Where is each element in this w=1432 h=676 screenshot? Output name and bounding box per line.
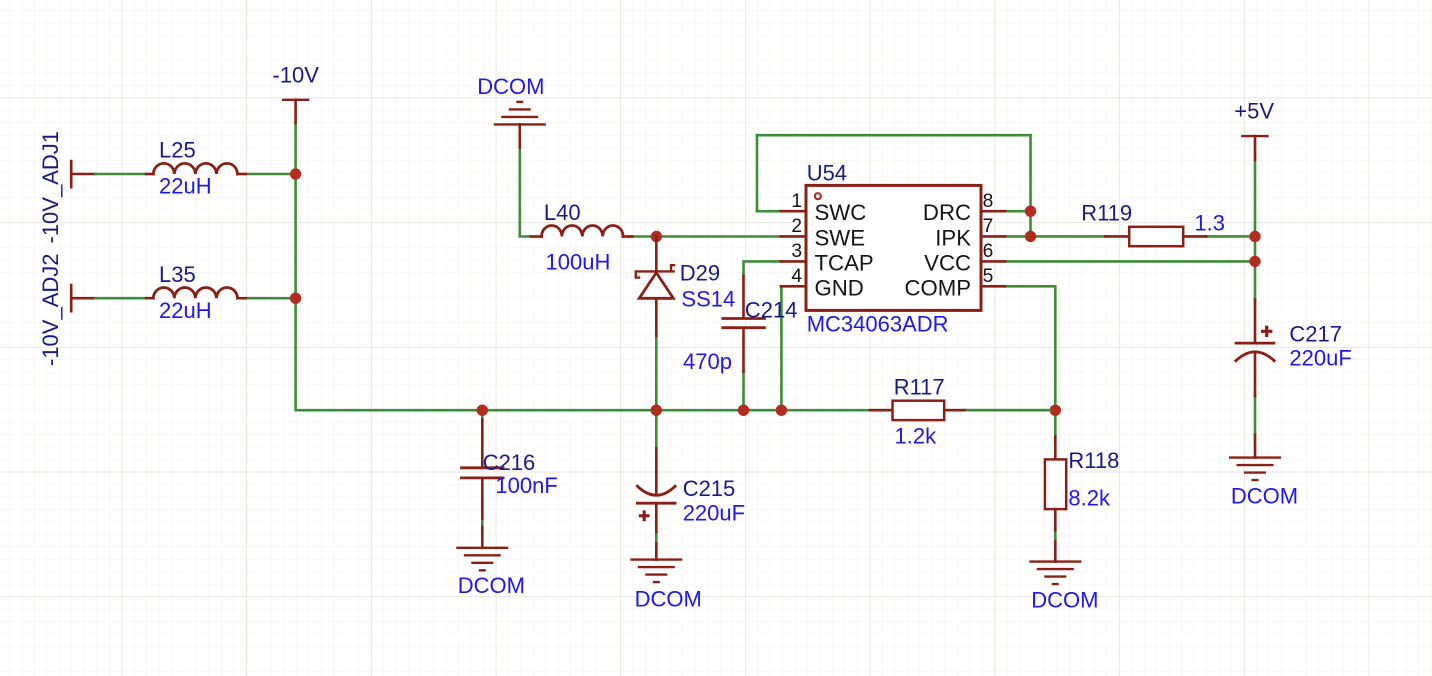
inductor L25 — [153, 163, 237, 174]
wire — [744, 261, 781, 275]
svg-text:22uH: 22uH — [159, 298, 212, 323]
wire — [246, 297, 296, 300]
wire — [757, 134, 1031, 137]
wire — [627, 235, 781, 238]
svg-text:SWE: SWE — [815, 225, 866, 250]
junction node bus C216 — [477, 405, 488, 416]
wire — [655, 532, 658, 544]
svg-text:VCC: VCC — [924, 250, 971, 275]
U54 pin 7 IPK — [981, 235, 1005, 238]
junction node bus C214 — [738, 405, 749, 416]
svg-text:DCOM: DCOM — [635, 587, 702, 612]
svg-text:+5V: +5V — [1234, 98, 1274, 123]
svg-text:5: 5 — [983, 266, 994, 287]
svg-text:7: 7 — [983, 216, 994, 237]
svg-text:DRC: DRC — [923, 200, 971, 225]
wire — [967, 409, 1050, 412]
junction node L40 / D29 / SWE — [651, 231, 662, 242]
svg-text:1: 1 — [791, 191, 802, 212]
junction node bus GND pin — [776, 405, 787, 416]
IC U54 body — [806, 185, 981, 310]
resistor R119 body — [1129, 227, 1183, 246]
wire — [1005, 286, 1055, 404]
svg-text:D29: D29 — [680, 261, 720, 286]
svg-text:22uH: 22uH — [159, 174, 212, 199]
svg-text:IPK: IPK — [935, 225, 971, 250]
resistor R118 body — [1054, 437, 1057, 460]
ground DCOM C216 — [456, 548, 508, 571]
power flag -10V — [282, 99, 310, 101]
wire — [756, 135, 759, 211]
svg-text:220uF: 220uF — [1289, 346, 1351, 371]
svg-text:U54: U54 — [807, 161, 847, 186]
svg-text:MC34063ADR: MC34063ADR — [807, 312, 949, 337]
svg-text:-10V: -10V — [273, 62, 320, 87]
svg-text:4: 4 — [791, 266, 802, 287]
svg-text:DCOM: DCOM — [1031, 588, 1098, 613]
junction node bus C215/D29 — [651, 405, 662, 416]
svg-text:470p: 470p — [683, 349, 732, 374]
wire — [1005, 260, 1255, 263]
inductor L35 — [153, 288, 237, 299]
ground DCOM R118 — [1029, 562, 1081, 585]
ground DCOM C215 — [630, 560, 682, 583]
wire — [1254, 396, 1257, 435]
svg-text:L25: L25 — [159, 137, 196, 162]
wire — [1054, 531, 1057, 542]
svg-text:L35: L35 — [159, 262, 196, 287]
svg-text:DCOM: DCOM — [1231, 484, 1298, 509]
capacitor C217 — [1254, 300, 1257, 344]
svg-text:R117: R117 — [894, 375, 945, 400]
svg-text:1.2k: 1.2k — [895, 424, 938, 449]
svg-text:DCOM: DCOM — [458, 573, 525, 598]
wire — [520, 148, 531, 237]
wire — [1005, 210, 1024, 213]
svg-text:SWC: SWC — [815, 200, 867, 225]
svg-text:C215: C215 — [683, 476, 736, 501]
inductor L40 — [542, 225, 624, 236]
svg-text:C217: C217 — [1289, 322, 1342, 347]
wire — [1054, 410, 1057, 436]
wire — [246, 173, 296, 176]
junction node DRC — [1025, 206, 1036, 217]
svg-text:100nF: 100nF — [495, 473, 557, 498]
capacitor C216 — [481, 420, 484, 468]
svg-text:-10V_ADJ2: -10V_ADJ2 — [38, 253, 63, 366]
svg-text:COMP: COMP — [904, 275, 971, 300]
svg-text:C216: C216 — [483, 450, 536, 475]
wire — [757, 210, 781, 213]
U54 pin 8 DRC — [981, 210, 1005, 213]
wire — [95, 297, 146, 300]
wire — [481, 410, 484, 419]
U54 pin 3 TCAP — [781, 260, 806, 263]
wire — [1206, 235, 1255, 238]
wire — [1254, 160, 1257, 300]
svg-text:TCAP: TCAP — [815, 250, 874, 275]
U54 pin 6 VCC — [981, 260, 1005, 263]
wire — [296, 123, 1056, 410]
resistor R117 body — [893, 401, 945, 420]
wire — [481, 519, 484, 528]
pin terminal -10V_ADJ1 — [71, 161, 95, 187]
svg-text:3: 3 — [791, 241, 802, 262]
U54 pin 1 SWC — [781, 210, 806, 213]
junction node -10V / L25 — [290, 168, 301, 179]
svg-text:100uH: 100uH — [546, 250, 611, 275]
svg-text:C214: C214 — [745, 298, 798, 323]
svg-text:8: 8 — [983, 191, 994, 212]
svg-text:SS14: SS14 — [681, 286, 735, 311]
IC U54 pin-1 mark — [815, 193, 821, 199]
ground DCOM top — [494, 102, 546, 125]
diode D29 — [655, 237, 658, 272]
wire — [655, 336, 658, 404]
svg-text:DCOM: DCOM — [477, 74, 544, 99]
U54 pin 4 GND — [781, 285, 806, 288]
U54 pin 2 SWE — [781, 235, 806, 238]
power flag +5V — [1241, 135, 1269, 137]
wire — [780, 286, 783, 404]
junction node +5V / R119 — [1249, 231, 1260, 242]
wire — [1005, 235, 1106, 238]
svg-text:L40: L40 — [544, 200, 581, 225]
junction node bus R117/R118 — [1050, 405, 1061, 416]
svg-text:220uF: 220uF — [683, 500, 745, 525]
svg-text:R119: R119 — [1081, 201, 1132, 226]
wire — [95, 173, 146, 176]
junction node DRC-IPK — [1025, 231, 1036, 242]
wire — [742, 372, 745, 404]
capacitor C214 — [742, 276, 745, 318]
svg-text:-10V_ADJ1: -10V_ADJ1 — [38, 131, 63, 244]
wire — [655, 410, 658, 448]
svg-text:1.3: 1.3 — [1194, 211, 1225, 236]
pin terminal -10V_ADJ2 — [71, 285, 95, 311]
U54 pin 5 COMP — [981, 285, 1005, 288]
junction node -10V / L35 — [290, 293, 301, 304]
wire — [1029, 135, 1032, 236]
capacitor C215 — [655, 449, 658, 495]
ground DCOM C217 — [1229, 458, 1281, 481]
svg-text:2: 2 — [791, 216, 802, 237]
svg-text:8.2k: 8.2k — [1068, 486, 1111, 511]
svg-text:R118: R118 — [1068, 448, 1119, 473]
svg-text:GND: GND — [815, 275, 864, 300]
junction node +5V / VCC — [1249, 256, 1260, 267]
svg-text:6: 6 — [983, 241, 994, 262]
